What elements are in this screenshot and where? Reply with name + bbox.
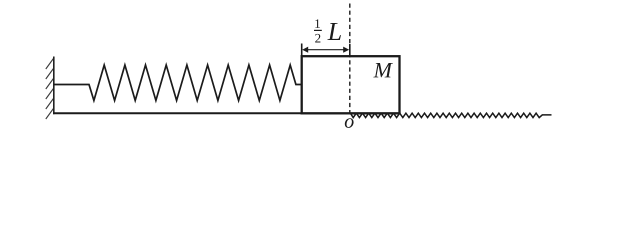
dimension arrow line [305, 49, 346, 51]
dimension extension line left [301, 44, 303, 57]
dashed centerline through o [349, 4, 351, 114]
wall hatching [46, 58, 54, 119]
block M [302, 56, 400, 113]
label fraction numerator 1 [315, 19, 320, 28]
wall [53, 57, 55, 115]
fraction bar [314, 29, 322, 31]
left arrowhead [302, 47, 308, 53]
label o [345, 118, 354, 128]
label M [373, 63, 393, 77]
label fraction denominator 2 [315, 34, 320, 43]
rough surface [351, 113, 552, 117]
spring [54, 65, 302, 101]
floor [53, 112, 401, 114]
right arrowhead [343, 47, 349, 53]
label L [327, 23, 341, 40]
dimension extension line right [349, 44, 351, 55]
